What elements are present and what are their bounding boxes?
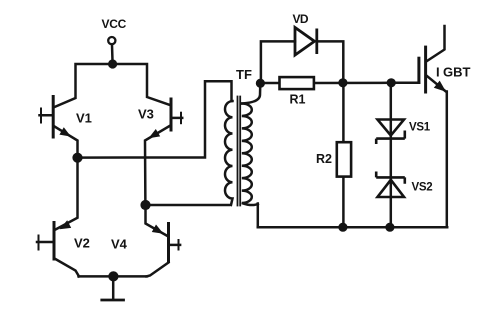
- svg-text:GBT: GBT: [443, 65, 471, 80]
- svg-text:VD: VD: [293, 12, 309, 26]
- svg-text:V3: V3: [138, 107, 154, 122]
- svg-text:V2: V2: [74, 236, 90, 251]
- svg-text:V1: V1: [76, 111, 92, 126]
- svg-text:TF: TF: [236, 67, 252, 82]
- svg-text:VS2: VS2: [412, 182, 433, 194]
- svg-text:R2: R2: [316, 152, 332, 166]
- svg-text:V4: V4: [111, 237, 128, 252]
- svg-text:VS1: VS1: [409, 122, 431, 134]
- svg-text:I: I: [436, 65, 440, 80]
- svg-text:VCC: VCC: [102, 17, 127, 31]
- svg-text:R1: R1: [290, 93, 306, 107]
